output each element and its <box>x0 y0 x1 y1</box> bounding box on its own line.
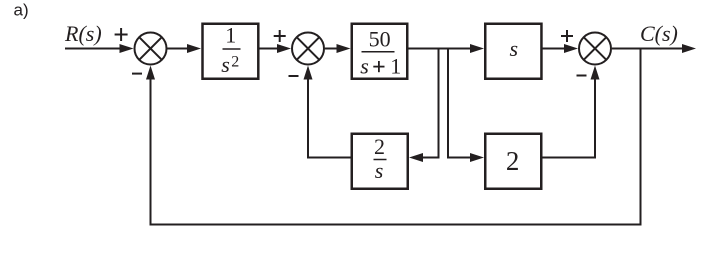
minus sign at summer S3 feedback input <box>577 75 587 77</box>
wire summer S3 to output C(s) <box>612 44 696 53</box>
svg-text:1: 1 <box>390 53 401 78</box>
block H1 2/s <box>352 134 408 189</box>
block H2 2 <box>485 134 541 189</box>
wire block H1 output to summer S2 <box>304 66 351 158</box>
wire block H2 output to summer S3 <box>543 66 600 158</box>
wire summer S1 to block G1 <box>167 44 202 53</box>
wire block G3 to summer S3 <box>543 44 579 53</box>
node R(s) input label <box>64 21 102 46</box>
block G3 s <box>485 24 541 79</box>
node C(s) output label <box>640 21 678 46</box>
svg-text:s: s <box>221 52 230 77</box>
wire outer feedback from output takeoff to summer S1 <box>146 49 641 225</box>
wire input R(s) to summer S1 <box>65 44 134 53</box>
svg-text:2: 2 <box>506 146 520 176</box>
svg-text:a): a) <box>14 1 29 20</box>
plus sign at summer S3 input <box>561 30 573 42</box>
block G1 1/s^2 <box>203 23 259 79</box>
svg-text:1: 1 <box>225 23 236 48</box>
minus sign at summer S2 feedback input <box>289 75 299 77</box>
svg-text:C(s): C(s) <box>640 21 678 46</box>
svg-text:s: s <box>510 36 519 61</box>
svg-text:s: s <box>360 53 369 78</box>
node takeoff T1 and wire down to block H1 input <box>409 49 439 163</box>
svg-text:R(s): R(s) <box>64 21 102 46</box>
summing junction S2 <box>292 33 324 65</box>
svg-text:2: 2 <box>231 54 239 71</box>
block G2 50/(s+1) <box>352 24 408 79</box>
wire block G1 to summer S2 <box>260 44 292 53</box>
summing junction S3 <box>579 33 611 65</box>
label a) <box>14 1 29 20</box>
svg-text:s: s <box>375 158 384 183</box>
wire block G2 to block G3 <box>409 44 485 53</box>
plus sign at summer S1 input <box>115 28 128 41</box>
minus sign at summer S1 feedback input <box>132 73 142 75</box>
wire summer S2 to block G2 <box>325 44 351 53</box>
svg-text:50: 50 <box>369 27 391 52</box>
plus sign at summer S2 input <box>274 30 286 42</box>
summing junction S1 <box>135 33 167 65</box>
svg-text:2: 2 <box>374 134 385 159</box>
node takeoff T2 and wire down to block H2 input <box>448 49 484 163</box>
